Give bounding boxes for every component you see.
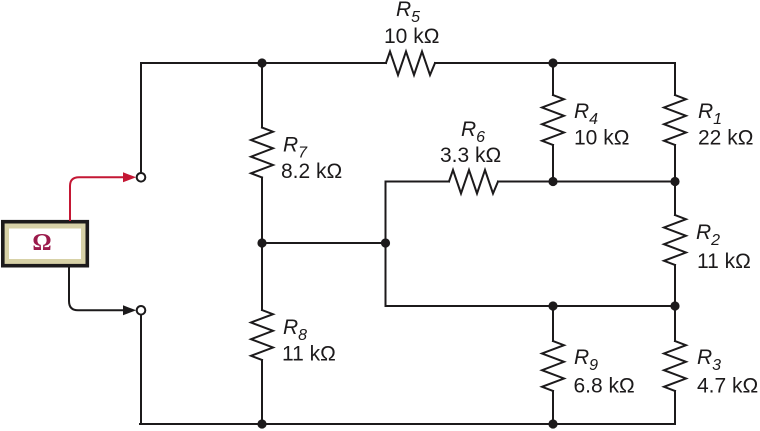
wire right branch top lead — [674, 63, 676, 95]
resistor R7 — [251, 128, 273, 178]
wire R8 top lead — [261, 243, 263, 310]
svg-text:Ω: Ω — [32, 230, 51, 256]
svg-text:10 kΩ: 10 kΩ — [574, 127, 629, 150]
wire middle link node A — [262, 242, 386, 244]
junction dot R2-R3 node — [670, 301, 679, 310]
wire black test lead — [69, 266, 124, 310]
junction dot bottom R8 — [257, 419, 266, 428]
black probe arrowhead — [123, 305, 136, 315]
wire inner vertical branch — [385, 182, 387, 307]
node terminal top — [137, 173, 146, 182]
svg-text:R3: R3 — [697, 346, 721, 374]
resistor R3 — [664, 341, 686, 391]
svg-text:R4: R4 — [574, 100, 598, 128]
svg-text:8.2 kΩ: 8.2 kΩ — [281, 160, 342, 183]
ohmmeter U1 body — [3, 222, 88, 266]
svg-text:R8: R8 — [283, 316, 307, 344]
resistor R2 — [664, 215, 686, 265]
junction dot R9 top node — [548, 301, 557, 310]
svg-text:R6: R6 — [461, 118, 485, 146]
wire R4 top lead — [552, 63, 554, 95]
svg-text:11 kΩ: 11 kΩ — [282, 343, 336, 366]
wire R6 left lead — [386, 181, 450, 183]
wire bottom bus — [140, 423, 675, 425]
wire top bus right segment — [435, 62, 675, 64]
resistor R6 — [449, 170, 498, 194]
wire R9 top lead — [552, 306, 554, 341]
wire red test lead — [70, 177, 124, 221]
svg-text:6.8 kΩ: 6.8 kΩ — [574, 375, 635, 398]
resistor R1 — [664, 95, 686, 145]
wire R4 bottom lead — [552, 145, 554, 182]
svg-text:R7: R7 — [283, 134, 308, 162]
wire right branch R1-R2 — [674, 145, 676, 215]
svg-text:R2: R2 — [696, 221, 720, 249]
wire R7 top lead — [261, 63, 263, 128]
svg-text:11 kΩ: 11 kΩ — [697, 250, 751, 273]
wire left bottom vertical — [140, 315, 142, 424]
svg-text:R1: R1 — [698, 100, 722, 128]
svg-text:3.3 kΩ: 3.3 kΩ — [440, 144, 501, 167]
wire R6 right lead — [498, 181, 675, 183]
svg-text:4.7 kΩ: 4.7 kΩ — [697, 375, 758, 398]
wire right branch bottom lead — [674, 391, 676, 424]
svg-text:10 kΩ: 10 kΩ — [384, 25, 439, 48]
resistor R8 — [251, 310, 273, 360]
resistor R4 — [542, 95, 564, 145]
wire R9 bottom lead — [552, 391, 554, 424]
wire right branch R2-R3 — [674, 265, 676, 341]
junction dot R6-R4 node — [548, 177, 557, 186]
junction dot top R7 — [257, 58, 266, 67]
node terminal bottom — [137, 306, 146, 315]
svg-text:R9: R9 — [574, 346, 598, 374]
junction dot bottom R9 — [548, 419, 557, 428]
wire R8 bottom lead — [261, 360, 263, 424]
junction dot R1-R2 node — [670, 177, 679, 186]
junction dot top R4 — [548, 58, 557, 67]
wire R7 bottom lead — [261, 178, 263, 244]
wire top bus left segment — [141, 63, 386, 173]
junction dot node A right — [381, 238, 390, 247]
svg-text:R5: R5 — [396, 0, 420, 26]
wire lower inner bus — [386, 305, 676, 307]
svg-text:22 kΩ: 22 kΩ — [698, 127, 753, 150]
resistor R5 — [386, 52, 435, 76]
red probe arrowhead — [123, 172, 136, 182]
resistor R9 — [542, 341, 564, 391]
junction dot node A left — [257, 238, 266, 247]
